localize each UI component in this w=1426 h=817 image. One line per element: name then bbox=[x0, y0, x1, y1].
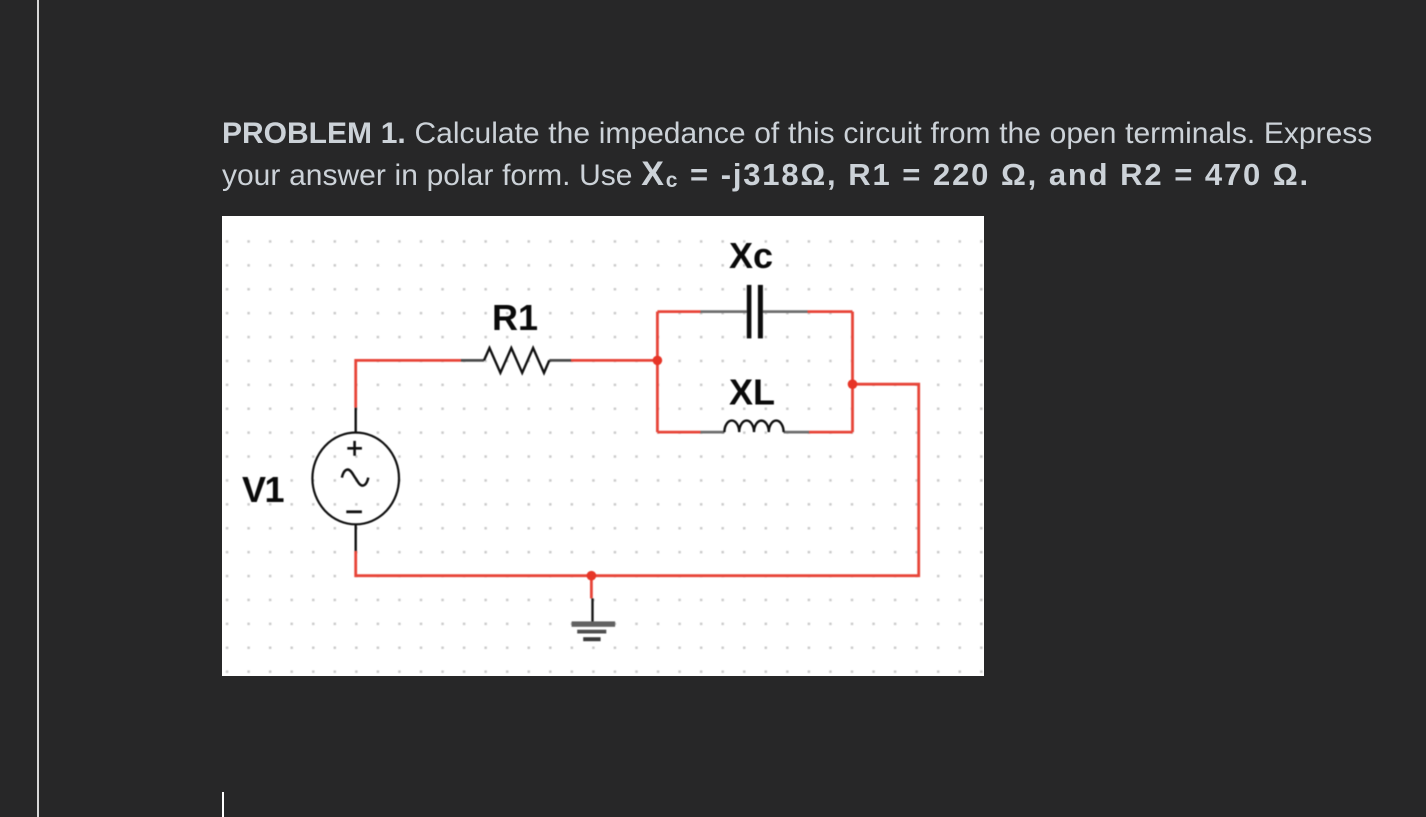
svg-text:Xc: Xc bbox=[729, 235, 773, 276]
wire parallel-right vertical bbox=[851, 312, 854, 433]
svg-text:V1: V1 bbox=[242, 469, 285, 510]
left page border line bbox=[37, 0, 39, 817]
capacitor Xc left lead bbox=[701, 310, 747, 313]
capacitor Xc left plate bbox=[747, 285, 752, 339]
voltage source V1 circle bbox=[312, 433, 399, 525]
ground bar 1 bbox=[572, 621, 616, 626]
R1 right lead bbox=[549, 359, 571, 362]
circuit schematic canvas bbox=[222, 216, 984, 676]
inductor XL left lead bbox=[701, 431, 725, 434]
V1 plus sign bbox=[347, 441, 362, 456]
wire R1 to node A bbox=[571, 359, 657, 362]
junction node B bbox=[848, 379, 858, 389]
problem heading text bbox=[222, 114, 1412, 201]
wire bottom branch right bbox=[809, 431, 853, 434]
svg-text:XL: XL bbox=[729, 372, 775, 413]
svg-text:R1: R1 bbox=[492, 297, 538, 338]
inductor XL bumps bbox=[724, 421, 783, 433]
ground lead bbox=[591, 598, 593, 624]
V1 top lead bbox=[355, 408, 357, 433]
ground bar 2 bbox=[577, 630, 606, 634]
V1 bottom lead bbox=[355, 524, 357, 551]
resistor R1 zigzag bbox=[484, 348, 549, 373]
wire top branch right bbox=[808, 310, 853, 313]
inductor XL right lead bbox=[784, 431, 809, 434]
wire V1 top to R1 bbox=[356, 360, 461, 407]
V1 minus sign bbox=[346, 510, 362, 513]
grid dots bbox=[222, 231, 984, 676]
wire top branch left bbox=[657, 310, 700, 313]
junction node G bbox=[587, 571, 597, 581]
wire bottom branch left bbox=[657, 431, 700, 434]
V1 sine symbol bbox=[342, 470, 368, 486]
capacitor Xc right lead bbox=[763, 310, 808, 313]
wire ground stub bbox=[590, 576, 593, 599]
text cursor bbox=[222, 792, 224, 817]
capacitor Xc right plate bbox=[758, 285, 763, 339]
R1 left lead bbox=[461, 359, 484, 362]
ground bar 3 bbox=[583, 637, 600, 641]
junction node A bbox=[653, 356, 663, 366]
wire node B to right rail and bottom return bbox=[356, 384, 919, 576]
wire parallel-left vertical bbox=[656, 312, 659, 433]
